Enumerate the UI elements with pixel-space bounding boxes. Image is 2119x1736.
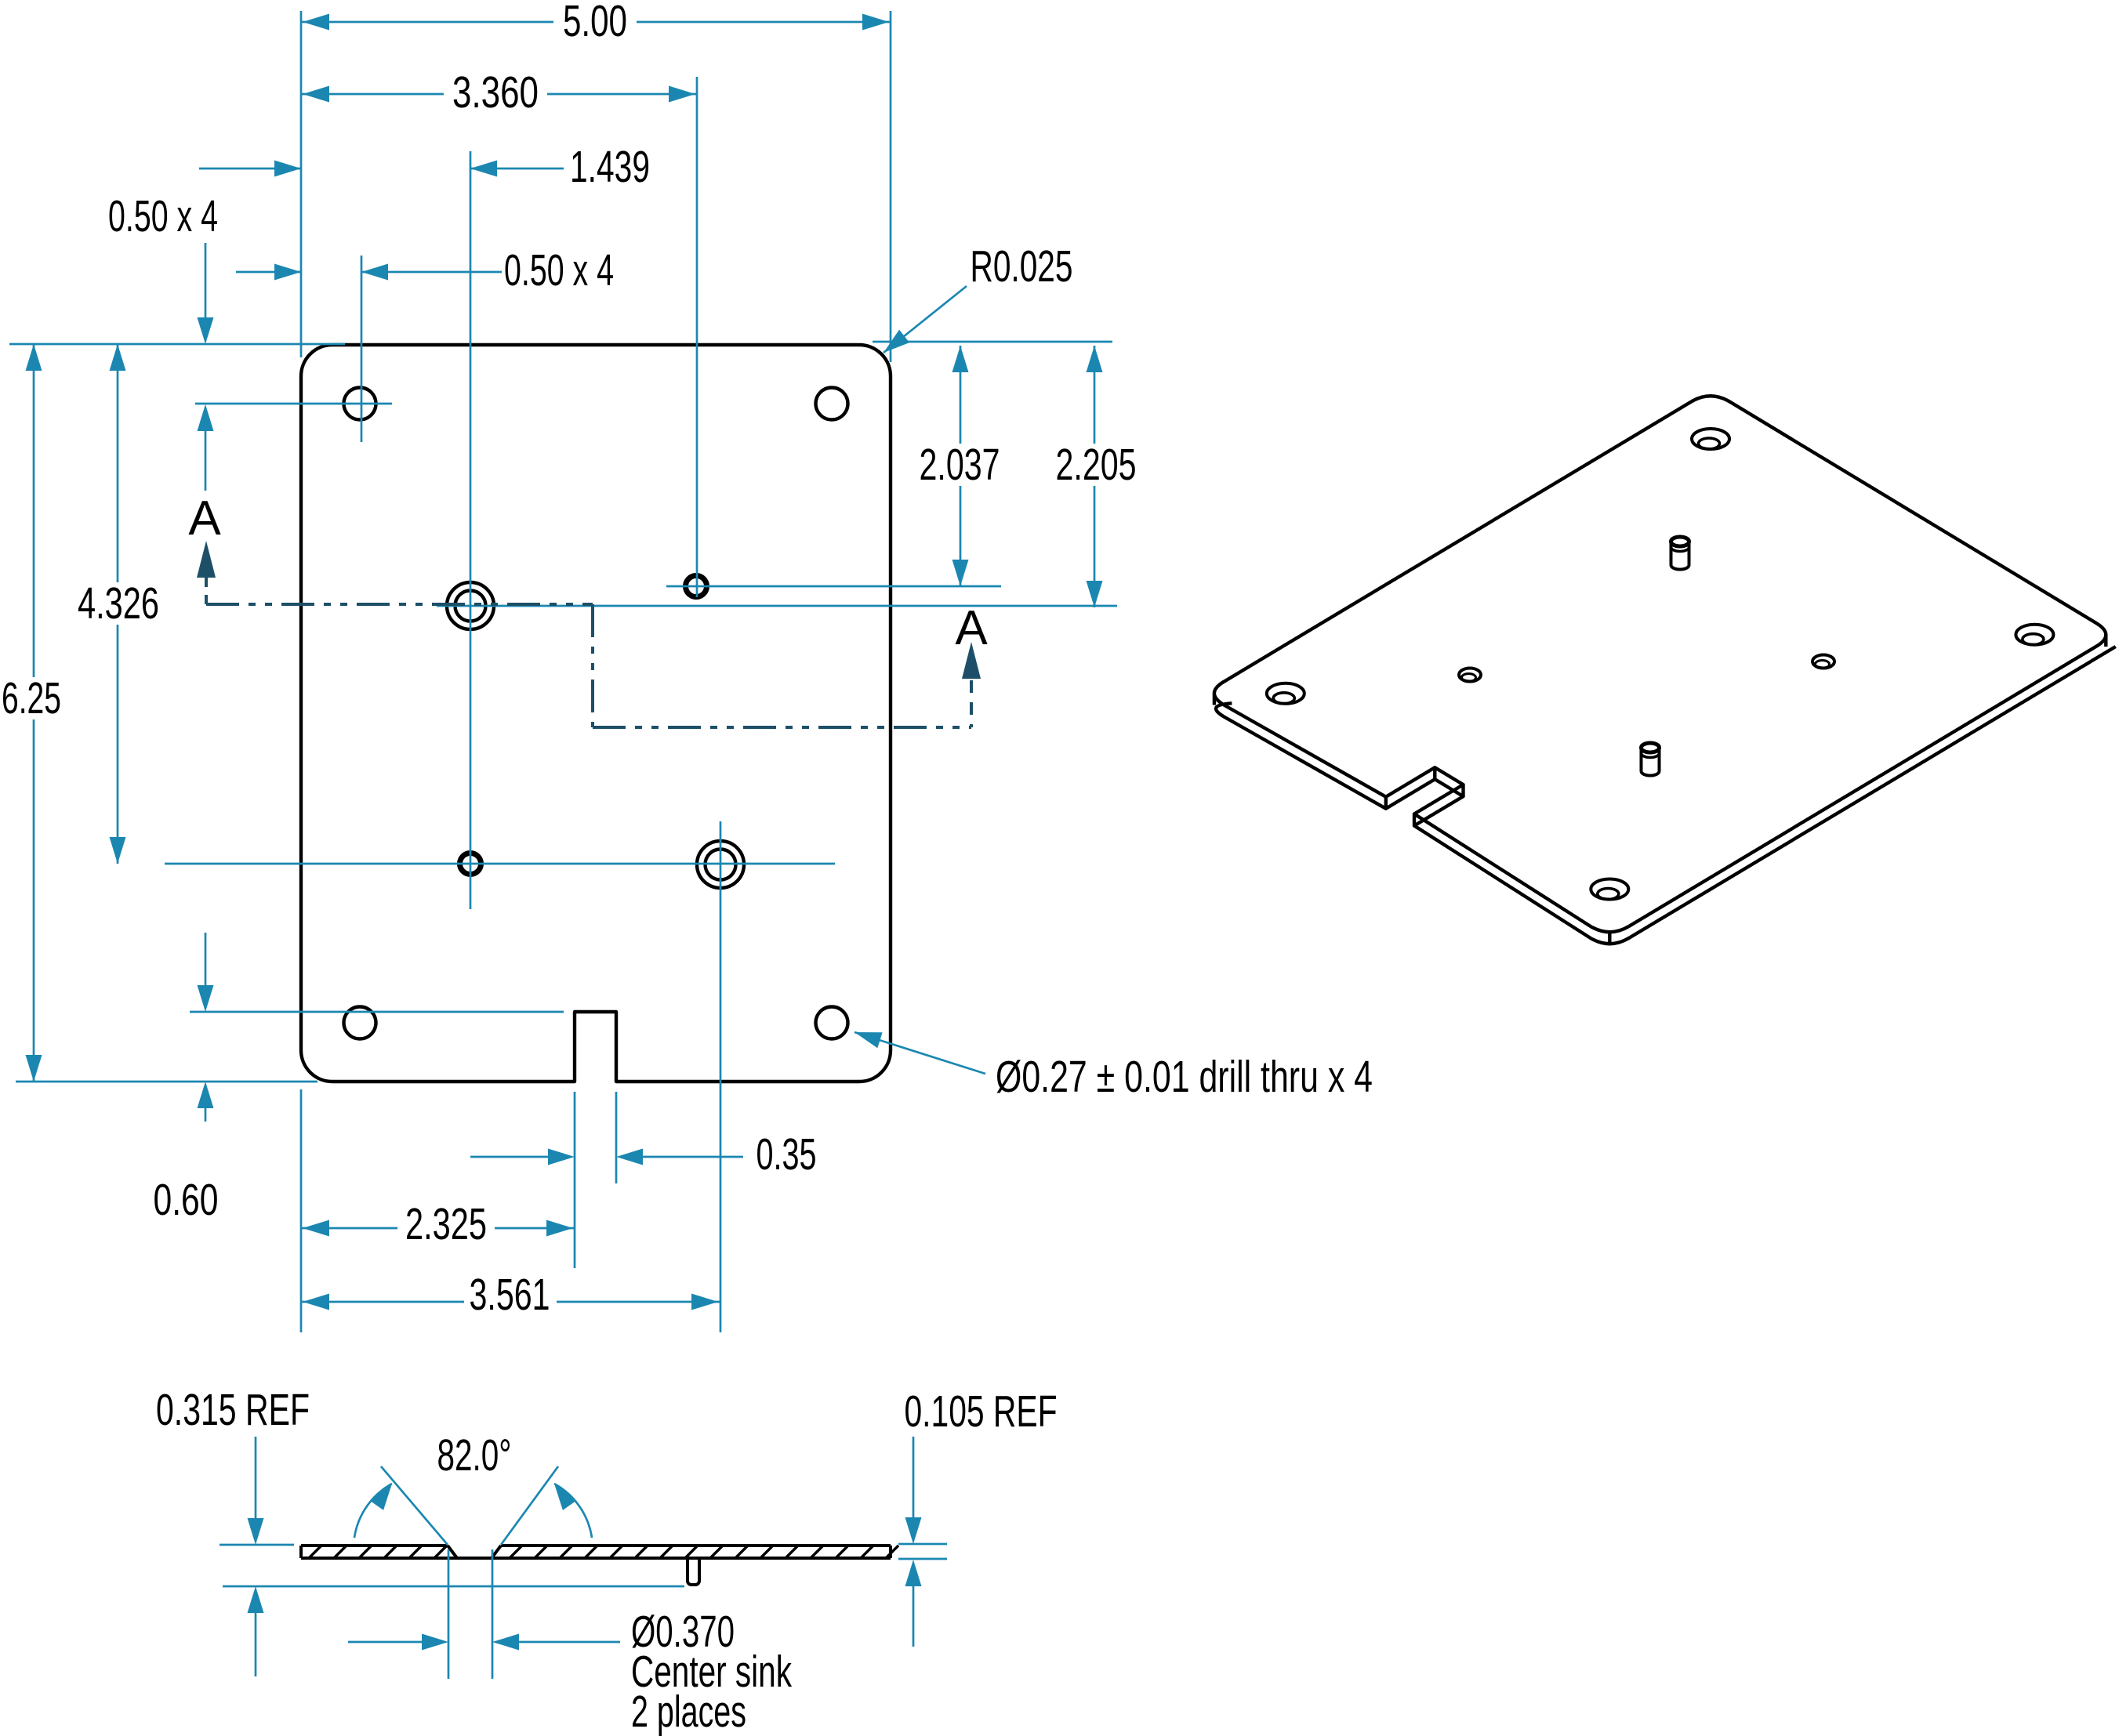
svg-text:2.037: 2.037: [920, 440, 1000, 490]
svg-text:2.325: 2.325: [405, 1199, 487, 1249]
iso plate top face outline: [1214, 396, 2106, 932]
extension line notch top to left: [190, 1011, 564, 1013]
svg-text:2 places: 2 places: [631, 1687, 746, 1736]
crosshair top-left hole: [195, 256, 392, 442]
extension lines 0.315 REF: [220, 1545, 684, 1586]
dimension 0.50 x 4 (top offset): [108, 191, 218, 491]
small hole upper-right (plan): [686, 576, 707, 597]
dimension 1.439: [199, 142, 650, 192]
section arrow A left: [188, 491, 221, 578]
centerline vertical through upper small hole x=889: [696, 77, 698, 597]
dimension 0.50 x 4 (side offset): [236, 245, 614, 295]
dimension 6.25: [2, 344, 61, 1082]
dimension 0.105 REF: [905, 1386, 1058, 1647]
svg-text:0.35: 0.35: [757, 1129, 817, 1180]
extension lines 0.105 REF: [898, 1544, 947, 1559]
dimension 2.325: [301, 1199, 575, 1249]
svg-text:3.561: 3.561: [470, 1270, 550, 1320]
iso pin upper: [1671, 537, 1689, 570]
extension line notch right edge below: [615, 1092, 618, 1183]
small hole lower-left (plan): [460, 854, 481, 875]
iso corner hole north: [1692, 429, 1729, 449]
dimension 5.00: [301, 0, 891, 46]
svg-text:6.25: 6.25: [2, 673, 61, 723]
drill hole 0.27 top-right: [816, 388, 848, 420]
leader drill note: [854, 1032, 1373, 1102]
extension line notch left edge below: [574, 1092, 576, 1268]
plate outline (plan view) with bottom notch: [301, 345, 891, 1082]
extension line plate left edge below: [300, 1089, 303, 1332]
iso vertical edges: [1214, 635, 2106, 944]
section bar outline: [301, 1546, 891, 1558]
iso corner hole south: [1591, 879, 1628, 900]
countersink angle arc right: [554, 1484, 592, 1538]
section arrow A right: [955, 601, 988, 679]
section countersink V: [448, 1546, 501, 1558]
svg-text:5.00: 5.00: [563, 0, 627, 46]
section pin: [688, 1558, 699, 1585]
iso corner hole east: [2016, 625, 2053, 645]
dimension 2.205: [1056, 346, 1137, 607]
countersink angle lines 82.0: [381, 1430, 558, 1545]
extension lines 0.370: [448, 1549, 492, 1679]
svg-text:A: A: [955, 601, 988, 655]
svg-text:0.105 REF: 0.105 REF: [905, 1386, 1058, 1437]
svg-text:0.50 x 4: 0.50 x 4: [504, 245, 614, 295]
svg-text:R0.025: R0.025: [971, 241, 1073, 292]
centerline horizontal through upper small hole y=748: [666, 585, 1001, 588]
countersink hole lower (plan): [697, 841, 744, 888]
dimension 0.315 REF: [156, 1385, 310, 1676]
dimension 0.370: [348, 1634, 620, 1651]
dimension 4.326: [78, 344, 159, 864]
svg-text:4.326: 4.326: [78, 578, 159, 629]
svg-text:2.205: 2.205: [1056, 440, 1137, 490]
extension line top edge to right: [873, 341, 1112, 343]
countersink hole upper (plan): [447, 582, 494, 629]
drill hole 0.27 bottom-right: [816, 1007, 848, 1039]
extension line plate left edge above: [300, 11, 303, 357]
section line A-A (phantom line): [206, 578, 971, 727]
dimension 0.60: [154, 933, 219, 1225]
svg-text:3.360: 3.360: [452, 67, 539, 118]
extension line plate right edge above: [890, 11, 892, 362]
iso plate bottom edges: [1216, 647, 2116, 944]
svg-text:0.50 x 4: 0.50 x 4: [108, 191, 218, 241]
svg-text:0.60: 0.60: [154, 1175, 219, 1225]
extension line top edge to left: [9, 343, 345, 346]
iso small hole right: [1812, 655, 1834, 669]
extension line bottom edge to left: [16, 1081, 317, 1083]
dimension 3.561: [301, 1270, 720, 1320]
countersink angle arc left: [354, 1484, 392, 1538]
dimension 3.360: [301, 67, 697, 118]
svg-text:1.439: 1.439: [570, 142, 650, 192]
iso small hole left: [1459, 669, 1481, 682]
svg-text:A: A: [188, 491, 221, 545]
centerline horizontal through countersink y=773: [437, 605, 1117, 607]
svg-text:Ø0.27 ± 0.01 drill thru x 4: Ø0.27 ± 0.01 drill thru x 4: [996, 1052, 1373, 1102]
leader R0.025: [884, 241, 1073, 353]
iso corner hole west: [1267, 683, 1304, 704]
dimension 0.35: [470, 1129, 817, 1180]
centerline vertical through lower countersink x=919: [720, 821, 722, 1332]
centerline vertical through countersinks x=600: [470, 151, 472, 909]
dimension 2.037: [920, 346, 1000, 586]
svg-text:82.0°: 82.0°: [437, 1430, 512, 1480]
centerline horizontal through lower holes y=1102: [165, 863, 835, 865]
drill hole 0.27 top-left: [344, 388, 376, 420]
section hatch: [309, 1546, 898, 1558]
note center sink: [631, 1607, 792, 1736]
drill hole 0.27 bottom-left: [344, 1007, 376, 1039]
svg-text:0.315 REF: 0.315 REF: [156, 1385, 310, 1435]
iso pin lower: [1642, 743, 1660, 776]
